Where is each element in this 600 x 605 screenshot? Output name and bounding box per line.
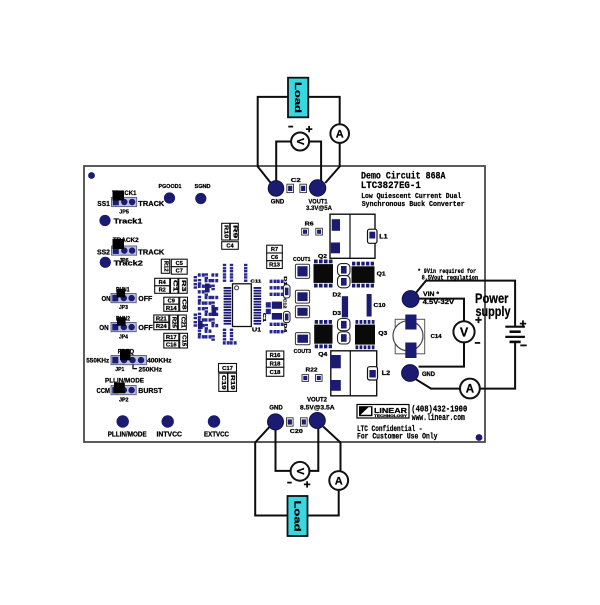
svg-text:R22: R22 bbox=[306, 368, 318, 374]
svg-text:R2: R2 bbox=[159, 288, 166, 294]
svg-text:GND: GND bbox=[269, 404, 283, 411]
svg-text:D4: D4 bbox=[283, 323, 288, 333]
svg-text:JP1: JP1 bbox=[115, 367, 124, 373]
svg-text:JP4: JP4 bbox=[119, 334, 128, 340]
svg-text:C11: C11 bbox=[250, 279, 262, 284]
svg-text:Q2: Q2 bbox=[318, 254, 327, 260]
svg-text:R12: R12 bbox=[163, 261, 169, 272]
svg-text:INTVCC: INTVCC bbox=[157, 432, 183, 439]
svg-text:TRACK: TRACK bbox=[138, 200, 165, 208]
svg-text:LTC3827EG-1: LTC3827EG-1 bbox=[361, 180, 421, 192]
svg-text:SGND: SGND bbox=[195, 184, 211, 190]
svg-text:C6: C6 bbox=[271, 255, 278, 261]
svg-text:PLLIN/MODE: PLLIN/MODE bbox=[108, 432, 147, 439]
svg-text:TECHNOLOGY: TECHNOLOGY bbox=[374, 414, 408, 418]
svg-text:JP2: JP2 bbox=[119, 398, 129, 404]
svg-text:ON: ON bbox=[99, 323, 109, 332]
svg-text:V: V bbox=[294, 468, 306, 475]
svg-text:C2: C2 bbox=[291, 178, 301, 184]
svg-text:R18: R18 bbox=[270, 361, 281, 367]
svg-text:8.5Vout regulation: 8.5Vout regulation bbox=[422, 274, 479, 281]
svg-text:8.5V@3.5A: 8.5V@3.5A bbox=[300, 404, 335, 411]
svg-text:A: A bbox=[336, 129, 344, 141]
svg-text:L2: L2 bbox=[382, 371, 391, 377]
svg-text:4.5V-32V: 4.5V-32V bbox=[423, 299, 455, 306]
svg-text:R7: R7 bbox=[271, 247, 278, 253]
svg-text:C12: C12 bbox=[283, 298, 288, 309]
svg-text:L1: L1 bbox=[379, 234, 388, 240]
svg-text:GND: GND bbox=[271, 198, 285, 205]
svg-text:A: A bbox=[335, 476, 343, 488]
svg-text:Synchronous Buck Converter: Synchronous Buck Converter bbox=[362, 201, 465, 209]
svg-text:R10: R10 bbox=[223, 225, 229, 238]
svg-text:R25: R25 bbox=[171, 317, 177, 328]
svg-text:C15: C15 bbox=[181, 335, 187, 346]
svg-text:ON: ON bbox=[102, 294, 111, 303]
svg-text:Track1: Track1 bbox=[114, 217, 143, 226]
svg-text:TRACK: TRACK bbox=[138, 248, 165, 256]
svg-text:R14: R14 bbox=[166, 306, 178, 312]
svg-text:CCM: CCM bbox=[97, 386, 111, 395]
svg-text:SS2: SS2 bbox=[97, 247, 110, 256]
svg-text:D1: D1 bbox=[283, 276, 288, 286]
svg-text:Q3: Q3 bbox=[378, 331, 388, 337]
svg-text:C1: C1 bbox=[262, 313, 267, 323]
svg-text:550KHz: 550KHz bbox=[86, 357, 110, 364]
svg-text:3.3V@5A: 3.3V@5A bbox=[306, 205, 332, 212]
svg-text:C8: C8 bbox=[181, 299, 187, 310]
svg-text:PGOOD1: PGOOD1 bbox=[159, 184, 183, 190]
svg-text:VOUT2: VOUT2 bbox=[307, 397, 327, 404]
svg-text:COUT3: COUT3 bbox=[294, 349, 312, 355]
svg-text:R24: R24 bbox=[156, 324, 168, 330]
svg-text:C20: C20 bbox=[290, 429, 303, 435]
svg-text:OFF: OFF bbox=[138, 323, 153, 332]
svg-text:C7: C7 bbox=[176, 268, 183, 274]
svg-text:A: A bbox=[466, 384, 474, 396]
svg-text:400KHz: 400KHz bbox=[147, 357, 172, 364]
svg-text:D3: D3 bbox=[333, 311, 342, 317]
svg-text:BURST: BURST bbox=[138, 388, 163, 395]
svg-text:Q1: Q1 bbox=[377, 272, 387, 278]
svg-text:R6: R6 bbox=[305, 221, 314, 227]
svg-text:C16: C16 bbox=[166, 342, 177, 348]
svg-text:EXTVCC: EXTVCC bbox=[204, 432, 229, 439]
svg-text:SS1: SS1 bbox=[97, 199, 110, 208]
svg-text:V: V bbox=[294, 138, 306, 145]
svg-text:V: V bbox=[460, 325, 469, 339]
svg-text:R17: R17 bbox=[166, 335, 177, 341]
svg-text:Load: Load bbox=[293, 501, 303, 532]
svg-text:R13: R13 bbox=[269, 263, 280, 269]
svg-text:Load: Load bbox=[293, 82, 303, 113]
svg-text:VIN *: VIN * bbox=[423, 292, 440, 298]
svg-text:D2: D2 bbox=[333, 292, 342, 298]
svg-text:JP3: JP3 bbox=[119, 305, 128, 311]
svg-text:C21: C21 bbox=[179, 317, 185, 328]
svg-text:OFF: OFF bbox=[138, 294, 152, 303]
svg-text:Low Quiescent Current Dual: Low Quiescent Current Dual bbox=[361, 193, 461, 201]
svg-text:R4: R4 bbox=[159, 280, 167, 286]
svg-text:C17: C17 bbox=[222, 366, 233, 372]
svg-text:www.linear.com: www.linear.com bbox=[412, 413, 465, 423]
svg-text:R16: R16 bbox=[270, 353, 281, 359]
svg-text:C1: C1 bbox=[171, 280, 177, 292]
svg-text:C4: C4 bbox=[226, 244, 234, 250]
svg-text:R9: R9 bbox=[231, 225, 237, 238]
svg-text:U1: U1 bbox=[252, 328, 261, 334]
svg-text:supply: supply bbox=[476, 304, 511, 319]
svg-text:C10: C10 bbox=[374, 303, 386, 309]
svg-text:For Customer Use Only: For Customer Use Only bbox=[357, 433, 438, 442]
svg-text:250KHz: 250KHz bbox=[139, 366, 163, 373]
svg-text:C14: C14 bbox=[431, 334, 443, 340]
svg-text:GND: GND bbox=[422, 372, 436, 378]
svg-text:R3: R3 bbox=[180, 280, 186, 292]
svg-text:R19: R19 bbox=[229, 375, 235, 390]
svg-text:JP6: JP6 bbox=[119, 258, 129, 264]
svg-text:JP5: JP5 bbox=[119, 209, 129, 215]
svg-text:COUT1: COUT1 bbox=[293, 257, 311, 263]
svg-text:Q4: Q4 bbox=[318, 352, 328, 358]
svg-text:C5: C5 bbox=[176, 261, 183, 267]
svg-text:C19: C19 bbox=[220, 375, 226, 390]
svg-text:C18: C18 bbox=[270, 370, 281, 376]
svg-text:R21: R21 bbox=[156, 317, 167, 323]
